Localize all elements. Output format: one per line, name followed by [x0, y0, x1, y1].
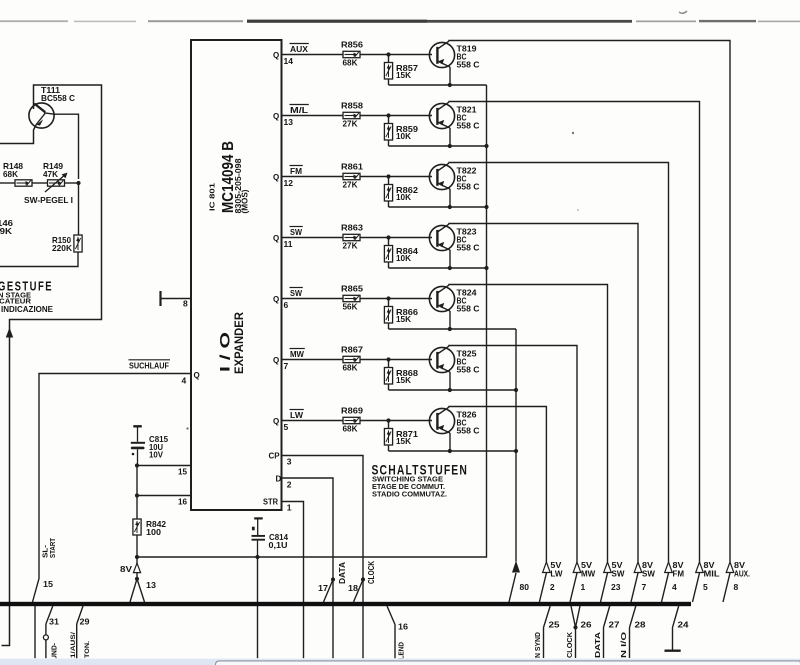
svg-text:SW: SW — [642, 570, 655, 579]
wire T819 collector to rail — [449, 67, 451, 85]
bottom window strip — [0, 659, 800, 665]
resistor R842 — [133, 519, 141, 535]
svg-text:(MOS): (MOS) — [240, 189, 249, 213]
connector pin 26 (CLOCK) — [571, 606, 580, 658]
resistor R869 68K — [343, 417, 360, 423]
wire T824 emitter-top to drop — [449, 285, 608, 563]
transistor T111 — [0, 103, 54, 144]
svg-text:31: 31 — [49, 617, 59, 627]
svg-text:24: 24 — [678, 620, 689, 630]
svg-text:29: 29 — [80, 617, 90, 627]
svg-text:DATA: DATA — [595, 632, 602, 658]
svg-text:R858: R858 — [341, 101, 363, 111]
wire T822 collector to rail — [449, 189, 451, 207]
svg-text:MW: MW — [290, 349, 305, 359]
connector pin 28 (N I/O) — [630, 606, 636, 658]
svg-text:10K: 10K — [396, 192, 412, 202]
wire R858 to node — [360, 115, 389, 117]
svg-text:Q: Q — [273, 51, 279, 60]
node DATA pin 17 — [331, 577, 335, 581]
connector pin 23 — [601, 562, 612, 602]
svg-text:SUCHLAUF: SUCHLAUF — [129, 361, 169, 371]
connector pin 8 — [723, 562, 734, 602]
IC pin 16 wire — [137, 495, 191, 497]
svg-text:AUX: AUX — [290, 44, 308, 54]
svg-text:Q: Q — [273, 173, 279, 182]
potentiometer R149 — [48, 180, 65, 186]
node base of T823 — [386, 235, 390, 239]
capacitor C814 — [252, 518, 266, 557]
svg-text:25: 25 — [549, 620, 560, 630]
wire collector line start of rail 516 — [389, 328, 517, 330]
transistor T826 BC558C — [429, 407, 454, 434]
wire R856 to node — [360, 54, 389, 56]
connector pin 27 (DATA) — [604, 606, 610, 658]
wire T821 collector to rail — [449, 128, 451, 146]
wire R861 to node — [360, 176, 389, 178]
svg-text:STR: STR — [263, 498, 278, 507]
svg-text:27K: 27K — [343, 119, 359, 129]
svg-text:D: D — [276, 475, 282, 484]
wire left vertical below bus to corner — [2, 606, 10, 646]
wire R865 to node — [360, 298, 389, 300]
resistor R150 — [74, 235, 82, 252]
connector pin 5 — [693, 562, 704, 602]
svg-text:TON.: TON. — [84, 641, 91, 658]
node base of T819 — [386, 52, 390, 56]
wire collector line to rail 516 — [389, 389, 517, 391]
IC output pin 7 wire (MW) — [282, 359, 344, 361]
wire collector line to rail 516 — [389, 450, 517, 452]
wire node to R150 — [78, 183, 80, 235]
svg-text:Q: Q — [273, 112, 279, 121]
wire T826 collector to rail — [449, 433, 451, 451]
svg-text:FM: FM — [673, 570, 685, 579]
svg-text:100: 100 — [146, 527, 161, 537]
wire R866 to collector line — [388, 323, 390, 329]
speck artifacts — [186, 132, 579, 430]
wire R863 to node — [360, 237, 389, 239]
connector pin 29 (1/AUS/TON.) — [77, 606, 83, 660]
svg-text:8: 8 — [734, 582, 739, 592]
wire C814 line down across bus — [257, 557, 259, 659]
svg-text:N I/O: N I/O — [621, 631, 628, 658]
svg-text:15K: 15K — [396, 314, 412, 324]
svg-text:17: 17 — [318, 583, 328, 593]
svg-text:4: 4 — [672, 582, 677, 592]
wire R842 to ground line — [136, 535, 138, 557]
svg-text:68K: 68K — [343, 363, 359, 373]
wire collector line to rail 487 — [389, 145, 487, 147]
node collector T824 — [448, 327, 452, 331]
svg-text:R869: R869 — [341, 406, 363, 416]
svg-text:23: 23 — [611, 582, 621, 592]
svg-text:15: 15 — [43, 579, 53, 589]
arrow up on left vertical wire — [6, 328, 13, 338]
IC output pin 11 wire (SW) — [282, 237, 344, 239]
svg-text:R865: R865 — [341, 284, 363, 294]
svg-text:1: 1 — [287, 503, 292, 513]
resistor R864 10K — [388, 238, 390, 246]
svg-text:,9K: ,9K — [0, 226, 13, 236]
svg-text:27: 27 — [609, 620, 620, 630]
svg-text:56K: 56K — [343, 302, 359, 312]
wire T823 emitter-top to drop — [449, 224, 638, 563]
svg-text:EXPANDER: EXPANDER — [234, 311, 246, 374]
svg-text:R861: R861 — [341, 162, 363, 172]
svg-text:DATA: DATA — [338, 562, 347, 584]
wire node to T824 base — [389, 298, 433, 300]
svg-text:5: 5 — [703, 582, 708, 592]
svg-text:SW: SW — [612, 570, 625, 579]
transistor T823 BC558C — [429, 224, 454, 250]
svg-text:Q: Q — [273, 356, 279, 365]
svg-text:Q: Q — [273, 417, 279, 426]
wire T825 collector to rail — [449, 372, 451, 390]
wire R864 to collector line — [388, 262, 390, 268]
svg-text:AUX.: AUX. — [734, 570, 750, 579]
transistor T819 BC558C — [429, 41, 454, 68]
svg-text:BC558 C: BC558 C — [41, 93, 75, 103]
IC pin 8 terminal — [159, 291, 161, 306]
svg-text:I / O: I / O — [218, 332, 233, 372]
node collector T821 — [448, 144, 452, 148]
transistor T821 BC558C — [429, 102, 454, 129]
wire node to T825 base — [389, 359, 433, 361]
svg-text:18: 18 — [348, 583, 358, 593]
svg-text:15K: 15K — [396, 436, 412, 446]
svg-text:11: 11 — [284, 239, 293, 249]
connector pin 16 (BLEND) — [387, 606, 395, 660]
svg-text:68K: 68K — [343, 58, 359, 68]
wire R871 to collector line — [388, 445, 390, 451]
svg-text:10V: 10V — [149, 450, 163, 460]
wire T825 emitter-top to drop — [449, 346, 577, 563]
svg-text:1/AUS/: 1/AUS/ — [70, 632, 77, 658]
bus line (thick) — [0, 602, 691, 606]
svg-text:16: 16 — [398, 622, 408, 632]
svg-text:R863: R863 — [341, 223, 363, 233]
wire R148-R149 — [32, 182, 47, 184]
node junction R149/T111/R150 — [76, 181, 80, 185]
IC output pin 13 wire (M/L) — [282, 115, 344, 117]
wire R857 to collector line — [388, 79, 390, 85]
resistor R871 15K — [388, 421, 390, 429]
wire collector line to rail 487 — [389, 267, 487, 269]
IC pin 15 wire — [137, 465, 191, 467]
node collector T822 — [448, 205, 452, 209]
node collector T825 — [448, 388, 452, 392]
node on ground line — [135, 555, 139, 559]
transistor T825 BC558C — [429, 346, 454, 373]
IC output pin 6 wire (SW) — [282, 298, 344, 300]
wire node to R842 — [136, 496, 138, 520]
op-amp-style IC box U801 MC14094B — [191, 40, 282, 510]
svg-text:8V: 8V — [120, 564, 132, 574]
wire C815 to pin16 node — [136, 466, 138, 496]
wire node to T822 base — [389, 176, 433, 178]
scan streak artifact — [0, 11, 800, 23]
svg-text:4: 4 — [182, 376, 187, 386]
svg-text:R856: R856 — [341, 40, 363, 50]
resistor R866 15K — [388, 299, 390, 307]
wire SUCHLAUF to IC pin 4 — [33, 374, 192, 603]
svg-text:2: 2 — [550, 582, 555, 592]
wire T111 emitter to R149 node — [54, 114, 79, 179]
connector pin 80 — [509, 561, 520, 603]
wire T819 emitter-top to drop — [449, 41, 730, 563]
svg-text:558 C: 558 C — [457, 304, 480, 314]
wire node to T821 base — [389, 115, 433, 117]
svg-text:16: 16 — [178, 497, 187, 507]
wire top loop of T111 cell — [10, 85, 102, 602]
8V arrow connector pin 13 — [130, 557, 145, 602]
capacitor C815 — [131, 426, 145, 465]
node C814 bottom — [255, 555, 259, 559]
svg-text:10K: 10K — [396, 253, 412, 263]
svg-text:26: 26 — [581, 620, 592, 630]
svg-text:558 C: 558 C — [457, 365, 480, 375]
svg-text:M/L: M/L — [290, 105, 308, 115]
svg-text:Q: Q — [273, 234, 279, 243]
svg-text:220K: 220K — [52, 243, 73, 253]
svg-text:LW: LW — [550, 570, 562, 579]
wire node to T826 base — [389, 420, 433, 422]
wire R149 to node — [65, 182, 79, 184]
svg-text:8: 8 — [183, 299, 188, 309]
node pin16 — [135, 493, 139, 497]
svg-text:N SYND: N SYND — [535, 632, 542, 658]
svg-text:28: 28 — [635, 620, 646, 630]
node base of T826 — [386, 418, 390, 422]
svg-text:LW: LW — [290, 410, 304, 420]
svg-text:558 C: 558 C — [457, 60, 480, 70]
wire below-bus continuation of pin15 drop — [34, 606, 36, 660]
wire R862 to collector line — [388, 201, 390, 207]
popup panel bottom right — [216, 661, 800, 665]
svg-text:SW: SW — [290, 288, 303, 298]
svg-text:7: 7 — [284, 361, 289, 371]
resistor R863 27K — [343, 234, 360, 240]
svg-text:1: 1 — [581, 582, 586, 592]
node base of T824 — [386, 296, 390, 300]
svg-text:47K: 47K — [43, 169, 59, 179]
wire collector line to rail 487 — [389, 206, 487, 208]
resistor R868 15K — [388, 360, 390, 368]
node CLOCK pin 18 — [361, 577, 365, 581]
svg-text:80: 80 — [520, 582, 530, 592]
svg-text:R867: R867 — [341, 345, 363, 355]
wire node to T823 base — [389, 237, 433, 239]
svg-text:CLOCK: CLOCK — [367, 561, 376, 584]
svg-text:UND-: UND- — [50, 643, 59, 660]
transistor T822 BC558C — [429, 163, 454, 189]
svg-text:27K: 27K — [343, 241, 359, 251]
resistor R859 10K — [388, 116, 390, 124]
svg-text:5: 5 — [284, 422, 289, 432]
node collector T826 — [448, 449, 452, 453]
IC output pin 5 wire (LW) — [282, 420, 344, 422]
svg-text:15K: 15K — [396, 70, 412, 80]
svg-text:START: START — [48, 538, 57, 558]
svg-text:MIL: MIL — [704, 570, 720, 579]
svg-text:558 C: 558 C — [457, 182, 480, 192]
node pin15 — [135, 463, 139, 467]
svg-text:2: 2 — [287, 480, 292, 490]
IC output pin 12 wire (FM) — [282, 176, 344, 178]
wire T821 emitter-top to drop — [449, 102, 700, 563]
node base of T822 — [386, 174, 390, 178]
resistor R148 — [0, 182, 15, 184]
wire R859 to collector line — [388, 140, 390, 146]
connector pin 1 — [570, 562, 581, 602]
svg-text:7: 7 — [642, 582, 647, 592]
resistor R862 10K — [388, 177, 390, 185]
connector pin 7 — [631, 562, 642, 602]
wire rail to pin 80 — [515, 329, 517, 562]
svg-text:Q: Q — [194, 371, 200, 380]
resistor R867 68K — [343, 356, 360, 362]
svg-text:MW: MW — [581, 570, 596, 579]
svg-text:13: 13 — [284, 117, 294, 127]
svg-text:558 C: 558 C — [457, 426, 480, 436]
wire T823 collector to rail — [449, 250, 451, 268]
connector pin 24 with terminator — [665, 606, 681, 651]
resistor R856 68K — [343, 51, 360, 57]
node base of T821 — [386, 113, 390, 117]
wire T826 emitter-top to drop — [449, 407, 546, 563]
node collector T823 — [448, 266, 452, 270]
node base of T825 — [386, 357, 390, 361]
wire R869 to node — [360, 420, 389, 422]
svg-text:FM: FM — [290, 166, 302, 176]
node collector T819 — [448, 83, 452, 87]
wire collector line start of rail 487 — [389, 84, 487, 86]
wire R868 to collector line — [388, 384, 390, 390]
resistor R861 27K — [343, 173, 360, 179]
svg-text:14: 14 — [284, 56, 294, 66]
wire R867 to node — [360, 359, 389, 361]
svg-text:CLOCK: CLOCK — [567, 632, 574, 658]
resistor R865 56K — [343, 295, 360, 301]
svg-text:15K: 15K — [396, 375, 412, 385]
connector pin 31 (UND-) — [43, 606, 52, 660]
svg-text:0,1U: 0,1U — [269, 540, 288, 550]
resistor R858 27K — [343, 112, 360, 118]
svg-text:Q: Q — [273, 295, 279, 304]
svg-text:27K: 27K — [343, 180, 359, 190]
svg-text:68K: 68K — [3, 169, 19, 179]
svg-text:SW-PEGEL I: SW-PEGEL I — [24, 196, 73, 205]
svg-text:10K: 10K — [396, 131, 412, 141]
connector pin 4 — [662, 562, 673, 602]
svg-text:STADIO COMMUTAZ.: STADIO COMMUTAZ. — [372, 489, 447, 498]
svg-text:SW: SW — [290, 227, 303, 237]
wire R150 to left edge — [0, 252, 78, 267]
svg-text:12: 12 — [284, 178, 294, 188]
svg-text:15: 15 — [178, 467, 187, 477]
svg-text:3: 3 — [287, 457, 292, 467]
svg-text:INDICAZIONE: INDICAZIONE — [1, 305, 54, 314]
wire common line to rail — [137, 85, 487, 557]
connector pin 2 — [539, 562, 550, 602]
svg-text:13: 13 — [146, 580, 156, 590]
svg-text:68K: 68K — [343, 424, 359, 434]
svg-text:CP: CP — [269, 452, 281, 461]
resistor R857 15K — [388, 55, 390, 63]
svg-text:6: 6 — [284, 300, 289, 310]
wire T824 collector to rail — [449, 311, 451, 329]
IC output pin 14 wire (AUX) — [282, 54, 344, 56]
wire T822 emitter-top to drop — [449, 163, 669, 563]
transistor T824 BC558C — [429, 285, 454, 312]
svg-text:IC 801: IC 801 — [208, 183, 217, 211]
svg-text:558 C: 558 C — [457, 243, 480, 253]
connector pin 25 (N SYND) — [544, 606, 551, 658]
wire node to T819 base — [389, 54, 433, 56]
svg-text:558 C: 558 C — [457, 121, 480, 131]
